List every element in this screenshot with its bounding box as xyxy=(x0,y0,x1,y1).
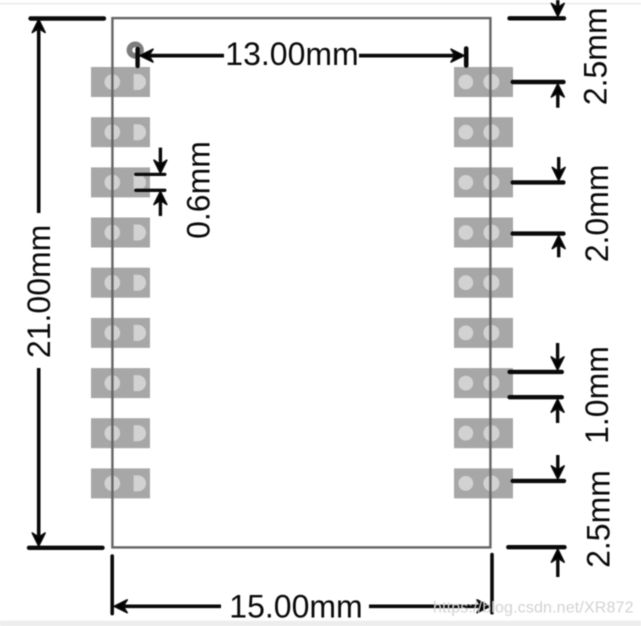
dimension 2.0mm: tick at pad row4 center xyxy=(513,231,564,235)
dimension 15.00mm left arrow and line xyxy=(114,600,221,613)
pad P1 left xyxy=(91,67,150,97)
dimension 2.5mm top: tick at pad row1 center xyxy=(513,80,564,84)
pad P12 right xyxy=(454,368,513,398)
svg-text:15.00mm: 15.00mm xyxy=(229,589,362,625)
faint bottom band xyxy=(0,621,641,626)
dimension 13.00mm left tick xyxy=(135,49,139,66)
pad P18 right xyxy=(454,67,513,97)
pad P4 left xyxy=(91,218,150,248)
dimension 13.00mm right arrow and line xyxy=(359,49,464,62)
dimension 1.0mm: tick at pad row7 top edge xyxy=(510,370,562,374)
pad P8 left xyxy=(91,418,150,448)
pad P11 right xyxy=(454,418,513,448)
dimension 13.00mm right tick xyxy=(464,49,469,66)
dimension 2.5mm top: upper arrow xyxy=(551,0,564,16)
svg-text:https://blog.csdn.net/XR872: https://blog.csdn.net/XR872 xyxy=(433,599,634,616)
dimension 13.00mm left arrow and line xyxy=(140,49,224,62)
svg-text:0.6mm: 0.6mm xyxy=(180,141,216,239)
pin 1 marker xyxy=(127,42,144,59)
pad P10 right xyxy=(454,468,513,498)
dimension 2.5mm bottom: lower arrow xyxy=(551,549,564,577)
dimension 0.6mm upper tick xyxy=(136,173,165,176)
pad P6 left xyxy=(91,318,150,348)
dimension 1.0mm: tick at pad row7 bottom edge xyxy=(510,395,562,399)
faint top border line xyxy=(0,3,641,4)
pad P9 left xyxy=(91,468,150,498)
dimension 2.0mm: upper arrow xyxy=(552,157,565,180)
dimension 21.00mm line lower segment with down arrow xyxy=(32,368,45,546)
svg-text:21.00mm: 21.00mm xyxy=(21,225,57,358)
dimension 2.5mm top: tick at body top edge xyxy=(510,16,565,20)
pad P16 right xyxy=(454,167,513,197)
pad P5 left xyxy=(91,268,150,298)
module body outline xyxy=(112,18,490,547)
dimension 2.0mm: lower arrow xyxy=(552,236,565,258)
pad P15 right xyxy=(454,218,513,248)
dimension 1.0mm: lower arrow xyxy=(551,399,564,423)
dimension 0.6mm lower tick xyxy=(136,189,165,192)
dimension 2.5mm top: lower arrow xyxy=(551,84,564,108)
dimension 15.00mm right extension line xyxy=(490,555,494,613)
dimension 0.6mm lower arrow xyxy=(154,192,167,217)
svg-text:13.00mm: 13.00mm xyxy=(225,36,358,72)
pad P14 right xyxy=(454,268,513,298)
dimension 1.0mm: upper arrow xyxy=(551,343,564,370)
svg-text:2.5mm: 2.5mm xyxy=(580,470,616,568)
dimension 2.5mm bottom: upper arrow xyxy=(551,455,564,479)
dimension 2.5mm bottom: tick at body bottom edge xyxy=(508,545,564,549)
dimension 2.5mm bottom: tick at pad row9 center xyxy=(513,479,564,483)
pad P3 left xyxy=(91,167,150,197)
dimension 0.6mm upper arrow xyxy=(154,148,167,174)
pad P13 right xyxy=(454,318,513,348)
svg-text:1.0mm: 1.0mm xyxy=(579,346,615,444)
dimension 21.00mm line upper segment with up arrow xyxy=(32,20,45,214)
svg-text:2.5mm: 2.5mm xyxy=(578,7,614,105)
dimension 2.0mm: tick at pad row3 center xyxy=(513,180,564,184)
dimension 15.00mm left extension line xyxy=(110,556,114,614)
dimension 21.00mm extension tick bottom xyxy=(29,546,103,550)
dimension 15.00mm right arrow and line xyxy=(369,600,490,613)
pad P2 left xyxy=(91,117,150,147)
pad P7 left xyxy=(91,368,150,398)
svg-text:2.0mm: 2.0mm xyxy=(579,165,615,263)
dimension 21.00mm extension tick top xyxy=(31,16,105,20)
pad P17 right xyxy=(454,117,513,147)
